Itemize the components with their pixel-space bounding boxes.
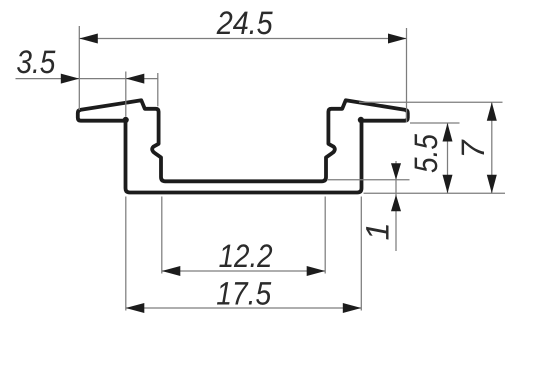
extension line 7 top — [359, 101, 503, 103]
dimension line 5.5 — [447, 123, 449, 193]
arrow 5.5 bottom — [443, 175, 453, 194]
arrows — [61, 34, 497, 314]
svg-text:3.5: 3.5 — [16, 44, 56, 80]
arrow 24.5 left — [79, 34, 98, 44]
arrow 12.2 right — [307, 266, 326, 276]
dimension line 7 — [491, 102, 493, 193]
arrow 1 upper (outside, pointing down) — [391, 163, 401, 180]
arrow 3.5 left (outside) — [61, 74, 80, 84]
dimension line 24.5 — [79, 38, 406, 40]
svg-text:7: 7 — [455, 139, 491, 159]
extension and dimension thin lines — [16, 26, 506, 311]
arrow 17.5 right — [343, 303, 362, 313]
arrow 7 top — [487, 102, 497, 121]
extension line at channel lip — [157, 73, 159, 106]
extension line 17.5 right — [360, 197, 362, 311]
extension line 24.5 right — [406, 28, 408, 123]
arrow 5.5 top — [443, 123, 453, 142]
extension line 5.5 top — [410, 122, 460, 124]
dimension line 12.2 — [162, 270, 325, 272]
arrow 24.5 right — [388, 34, 407, 44]
arrow 1 lower (outside, pointing up) — [391, 195, 401, 212]
dimension line 3.5 — [16, 78, 159, 80]
dimension line 1 — [395, 161, 397, 251]
extension line inner floor — [327, 179, 410, 181]
fillet dot right (wing/wall junction) — [358, 117, 364, 123]
arrow 3.5 right (outside) — [126, 74, 145, 84]
dimension line 17.5 — [126, 307, 361, 309]
svg-text:17.5: 17.5 — [216, 276, 272, 312]
svg-text:24.5: 24.5 — [216, 5, 274, 41]
arrow 12.2 left — [162, 266, 181, 276]
profile outline (aluminium channel cross-section) — [78, 100, 408, 192]
fillet dot left (wing/wall junction) — [123, 117, 129, 123]
svg-text:12.2: 12.2 — [219, 238, 273, 274]
extension line 12.2 left — [161, 197, 163, 274]
svg-text:1: 1 — [360, 222, 396, 240]
extension line 12.2 right — [324, 197, 326, 274]
arrow 17.5 left — [126, 303, 145, 313]
extension line 17.5 left — [125, 197, 127, 311]
extension line 3.5 right — [125, 72, 127, 117]
svg-text:5.5: 5.5 — [408, 133, 444, 173]
arrow 7 bottom — [487, 175, 497, 194]
extension line 24.5 left — [78, 26, 80, 110]
extension line outer bottom — [364, 192, 506, 194]
